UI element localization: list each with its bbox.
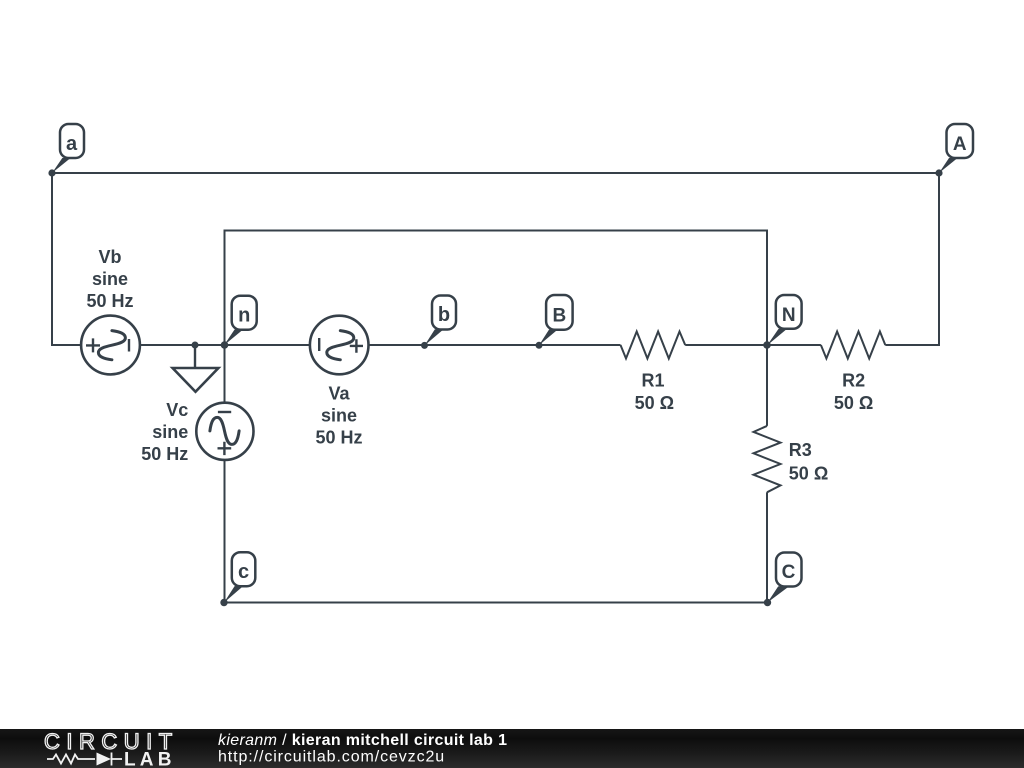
svg-text:50 Ω: 50 Ω [635, 393, 674, 413]
svg-text:50 Hz: 50 Hz [141, 444, 188, 464]
svg-text:50 Ω: 50 Ω [834, 393, 873, 413]
svg-text:Va: Va [328, 384, 350, 404]
svg-text:50 Ω: 50 Ω [789, 464, 828, 484]
svg-text:R2: R2 [842, 370, 865, 390]
svg-text:Vc: Vc [166, 400, 188, 420]
svg-text:LAB: LAB [124, 750, 176, 768]
svg-text:N: N [782, 305, 796, 326]
svg-text:sine: sine [152, 422, 188, 442]
svg-text:B: B [553, 305, 567, 326]
svg-text:a: a [66, 133, 78, 155]
svg-text:sine: sine [92, 269, 128, 289]
svg-text:kieranm / kieran mitchell circ: kieranm / kieran mitchell circuit lab 1 [218, 732, 507, 749]
svg-text:b: b [438, 304, 450, 326]
svg-text:http://circuitlab.com/cevzc2u: http://circuitlab.com/cevzc2u [218, 749, 445, 766]
svg-text:R1: R1 [641, 370, 664, 390]
svg-text:50 Hz: 50 Hz [315, 428, 362, 448]
svg-text:Vb: Vb [98, 247, 121, 267]
svg-text:C: C [782, 562, 796, 583]
svg-text:n: n [238, 304, 250, 326]
svg-text:A: A [953, 134, 967, 155]
svg-text:50 Hz: 50 Hz [86, 291, 133, 311]
svg-text:sine: sine [321, 406, 357, 426]
svg-text:R3: R3 [789, 440, 812, 460]
svg-text:c: c [238, 561, 249, 583]
